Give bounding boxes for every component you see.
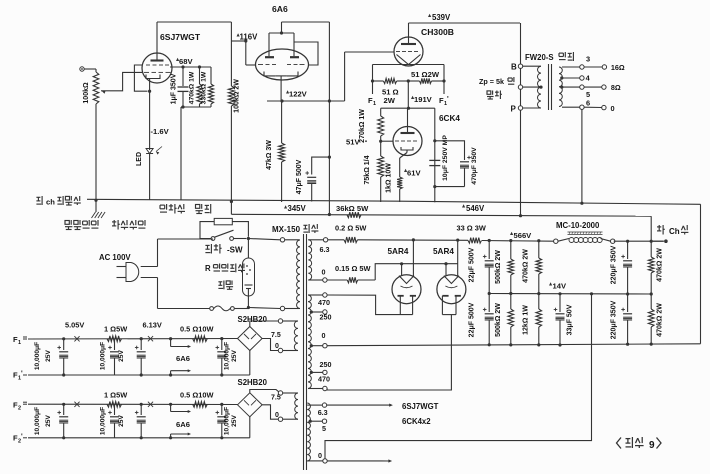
wire ground rail (one-point chassis bus) — [87, 199, 701, 204]
junction 10uF top — [433, 139, 436, 142]
label R input neon — [205, 264, 245, 274]
capacitor 10000uF 25V F1-b — [108, 339, 119, 375]
tube 6A6 V2 — [256, 33, 309, 80]
svg-text:75kΩ 1/4: 75kΩ 1/4 — [364, 155, 371, 184]
resistor 470k 1W — [197, 67, 202, 107]
label 500k 2W lower — [495, 303, 502, 337]
wire 51V to 6CK4 grid — [381, 140, 394, 142]
resistor 470k 2W right lower — [648, 294, 654, 346]
wire primary leads — [285, 240, 300, 309]
label AC 100V — [99, 253, 131, 262]
label 0.5ohm 10W F1 — [180, 325, 213, 334]
label 470uF 350V — [471, 147, 478, 185]
svg-text:6CK4: 6CK4 — [439, 114, 460, 123]
junction 470k top — [198, 65, 201, 68]
OPT core — [549, 64, 552, 110]
wire secondary return to ground rail — [581, 109, 583, 203]
svg-text:ch: ch — [46, 198, 55, 207]
inductor MX primary — [297, 240, 300, 309]
terminal 0 rect — [323, 278, 327, 282]
node +345V — [284, 204, 307, 213]
wire tap4 — [560, 74, 590, 83]
wire bridge1 bottom to F1' — [249, 351, 251, 376]
svg-text:16Ω: 16Ω — [611, 63, 625, 72]
spark killer R across switch — [200, 218, 248, 238]
wire HV tap 0 center — [310, 331, 327, 348]
junction 6A6 plate bar — [280, 31, 283, 34]
wire bridge2 right to 0 — [262, 405, 278, 419]
svg-text:6.13V: 6.13V — [143, 321, 162, 330]
junction 14V mid — [590, 292, 593, 295]
terminal P — [511, 105, 523, 114]
MX-150 core — [304, 234, 307, 470]
svg-text:6SJ7WGT: 6SJ7WGT — [160, 32, 201, 42]
label 6.3 top — [320, 245, 330, 254]
svg-text:470: 470 — [318, 298, 330, 307]
svg-text:500kΩ 2W: 500kΩ 2W — [495, 303, 502, 337]
label 470k 2W upper — [523, 249, 530, 283]
resistor 0.5ohm 10W F2 — [193, 402, 208, 408]
capacitor 470uF 350V — [435, 141, 471, 187]
svg-text:5AR4: 5AR4 — [433, 247, 454, 256]
svg-text:10,000μF: 10,000μF — [100, 407, 107, 435]
label 470k 1W — [189, 71, 196, 104]
svg-text:100kΩ: 100kΩ — [83, 82, 90, 104]
junction 100k lead on ground rail — [230, 200, 233, 203]
svg-text:8Ω: 8Ω — [611, 83, 621, 92]
svg-text:546V: 546V — [466, 204, 485, 213]
svg-text:LED: LED — [136, 152, 143, 166]
inductor heater winding A (7.5V) — [283, 321, 298, 351]
capacitor 22uF 500V upper — [483, 241, 494, 296]
resistor 270k 1W — [378, 108, 384, 141]
wire 6.3 heater feed — [327, 404, 393, 407]
label 220uF 350V lower — [611, 300, 618, 339]
terminal primary top — [280, 238, 284, 242]
label 10000uF F1-b — [100, 342, 126, 370]
xmark F1-a — [74, 336, 79, 341]
label 51ohm 2W left — [382, 88, 399, 106]
junction grid tap — [244, 39, 247, 42]
node 51V — [346, 138, 367, 147]
resistor 12k 1W — [536, 294, 542, 347]
node +116V — [237, 33, 259, 42]
wire rect rail — [328, 240, 664, 241]
label 10000uF F2-a — [34, 407, 52, 435]
svg-text:0: 0 — [322, 268, 326, 277]
resistor 1ohm 5W F2 — [107, 402, 122, 408]
resistor 33ohm 3W — [468, 238, 482, 244]
resistor 1ohm 5W F1 — [107, 336, 122, 342]
svg-text:0: 0 — [322, 331, 326, 340]
svg-text:25V: 25V — [45, 415, 52, 427]
capacitor 47uF 500V — [305, 156, 331, 202]
svg-text:61V: 61V — [407, 169, 421, 178]
svg-text:345V: 345V — [288, 204, 307, 213]
node +539V — [428, 13, 451, 22]
svg-text:-1.6V: -1.6V — [151, 127, 170, 136]
junction 5AR4-1 plate — [412, 238, 415, 241]
resistor 330k 1W — [208, 67, 213, 107]
junction cap top — [181, 65, 184, 68]
resistor 500k 2W upper — [508, 241, 514, 296]
label FW20-S Tango — [525, 52, 573, 62]
label 75k 1/4 — [364, 155, 371, 184]
resistor 0.2ohm 5W — [344, 237, 358, 243]
junction 10uF bottom — [433, 185, 436, 188]
ground symbol one-point chassis — [92, 212, 106, 218]
wire screen divider bottom — [181, 105, 211, 108]
wire heater feed to 5AR4s — [375, 262, 458, 280]
wire B+ rail +345V to +546V — [231, 214, 651, 216]
capacitor 10000uF 25V F2-c — [135, 403, 146, 440]
junction 500k-1 top — [509, 239, 512, 242]
svg-text:0: 0 — [611, 104, 615, 113]
svg-text:0.5 Ω10W: 0.5 Ω10W — [180, 391, 213, 400]
wire F2 top — [28, 403, 238, 405]
wire 6SJ7 screen line +68V — [170, 66, 211, 68]
label tube 6SJ7WGT — [160, 32, 201, 42]
inductor OPT primary — [538, 66, 541, 108]
wire mid rail — [489, 293, 651, 296]
svg-text:3: 3 — [586, 55, 590, 64]
wire filament sides down — [373, 65, 445, 82]
xmark F2-b — [148, 402, 153, 407]
svg-text:B: B — [511, 63, 517, 72]
wire tap6 to 0 — [584, 106, 602, 108]
svg-text:10,000μF: 10,000μF — [100, 342, 107, 370]
junction 5AR4-2 plate — [456, 239, 459, 242]
svg-text:566V: 566V — [514, 231, 533, 240]
tube 5AR4 V5 — [392, 275, 421, 304]
svg-text:6A6: 6A6 — [176, 420, 190, 429]
potentiometer 100k — [93, 69, 110, 108]
label 1ohm 5W F2 — [104, 391, 127, 400]
wire tap5 to 8ohm — [584, 86, 602, 88]
wire bridge1 right to 0 — [262, 339, 278, 351]
svg-text:330kΩ 1W: 330kΩ 1W — [201, 71, 208, 104]
svg-text:10μF 250V MP: 10μF 250V MP — [442, 135, 449, 181]
label 10uF 250V MP — [442, 135, 449, 181]
label S2HB20 bridge2 — [238, 378, 268, 387]
wire pot wiper to 6SJ7 grid — [110, 72, 143, 90]
svg-text:220μF 350V: 220μF 350V — [611, 245, 618, 284]
svg-text:2: 2 — [18, 406, 21, 412]
label spark killer — [160, 204, 211, 214]
svg-text:22μF 500V: 22μF 500V — [469, 247, 476, 282]
wire pot bottom to ground rail — [94, 108, 97, 212]
label 270k 1W — [359, 109, 366, 143]
terminal 0 ohm — [602, 104, 615, 113]
wire 6.3 heater tap — [307, 403, 328, 417]
wire 6SJ7 plate top line — [157, 22, 231, 53]
inductor OPT secondary — [559, 67, 562, 106]
wire HV top to 5AR4-1 plates — [327, 295, 413, 315]
wire F1 bottom — [28, 374, 250, 376]
wire bridge1 top to 7.5 — [250, 321, 278, 327]
terminal 6.3 rect — [323, 238, 327, 242]
svg-text:5: 5 — [322, 424, 326, 433]
wire 5V tap — [309, 419, 327, 433]
junction cathode node — [148, 90, 151, 93]
svg-text:470kΩ 2W: 470kΩ 2W — [523, 249, 530, 283]
wire bottom rail B- — [327, 344, 700, 346]
wire tap6 — [562, 99, 590, 110]
terminal F1 — [368, 81, 376, 107]
wire 5AR4-2 cathode up — [457, 240, 459, 276]
junction 51V node — [379, 140, 382, 143]
label LED — [136, 152, 143, 166]
terminal 7.5 B — [271, 391, 283, 402]
svg-text:1: 1 — [373, 101, 376, 107]
wire 6A6 plate feed — [282, 22, 330, 33]
inductor heater winding B (7.5V) — [283, 393, 298, 419]
choke MC-10-2000 — [554, 232, 615, 243]
svg-text:Ch: Ch — [669, 227, 680, 236]
wire tap5 — [560, 85, 590, 99]
node +546V — [462, 204, 485, 213]
svg-text:12kΩ 1W: 12kΩ 1W — [523, 305, 530, 335]
wire bridge2 top to 7.5 — [250, 390, 279, 393]
wire filament center tap — [407, 79, 410, 108]
node +566V — [510, 231, 532, 240]
wire 0 heater feed — [327, 459, 392, 462]
switch power SW — [211, 230, 233, 240]
xmark F2-a — [74, 402, 79, 407]
label 6A6 heater F1 — [176, 354, 190, 363]
terminal 8 ohm — [602, 83, 621, 92]
label sayong — [487, 91, 502, 100]
svg-text:470kΩ 1W: 470kΩ 1W — [189, 71, 196, 104]
node 6.13V — [143, 321, 162, 330]
capacitor 10uF 250V MP — [429, 160, 440, 165]
wire 6A6 heater arrows F2 — [171, 404, 191, 438]
svg-text:10,000μF: 10,000μF — [34, 407, 41, 435]
resistor 470k 2W upper — [536, 241, 542, 296]
label 10000uF F2-b — [100, 407, 126, 435]
resistor 36k 5W in B+ rail — [347, 212, 361, 218]
wire heater 0 to 14V node — [325, 294, 592, 459]
label heater loads 6CK4x2 — [402, 417, 431, 426]
wire bridge2 bottom to F2' — [249, 417, 251, 438]
bridge rectifier S2HB20 #2 — [238, 393, 263, 417]
label 100k 2W — [234, 79, 241, 113]
svg-text:470: 470 — [318, 375, 330, 384]
resistor 47k 3W cathode — [279, 101, 285, 202]
label 220uF 350V upper — [611, 245, 618, 284]
svg-text:R: R — [205, 264, 211, 273]
resistor 470k 2W right upper — [648, 241, 654, 295]
label one-point chassis earth — [65, 220, 145, 230]
svg-text:191V: 191V — [414, 95, 433, 104]
caption schematic 9 — [617, 437, 662, 451]
wire 191V bar — [381, 107, 435, 110]
node -61V — [404, 169, 421, 178]
label 1ohm 5W F1 — [104, 325, 127, 334]
svg-text:P: P — [511, 105, 517, 114]
terminal F2' input — [13, 434, 27, 445]
xmark F1-b — [148, 336, 153, 341]
label 10000uF 25V F1-a — [34, 342, 52, 370]
svg-text:470μF 350V: 470μF 350V — [471, 147, 478, 185]
capacitor 22uF 500V lower — [483, 294, 494, 347]
wire 6A6 cathode down — [280, 76, 282, 101]
svg-text:6.3: 6.3 — [320, 245, 330, 254]
svg-text:1μF 350V: 1μF 350V — [171, 73, 178, 104]
label 10000uF F2-d — [224, 407, 239, 435]
wire right box edge (to other channel frame) — [700, 204, 702, 343]
tube 6CK4 V4 — [393, 127, 422, 156]
svg-text:25V: 25V — [118, 350, 125, 362]
svg-text:25V: 25V — [45, 350, 52, 362]
svg-text:500kΩ 2W: 500kΩ 2W — [495, 250, 502, 284]
wire AC loop left — [157, 239, 159, 309]
capacitor 1uF 350V — [178, 67, 189, 107]
wire suppressor wrap — [134, 65, 147, 91]
svg-text:22μF 500V: 22μF 500V — [469, 302, 476, 337]
tube 6SJ7 V1 — [142, 53, 172, 83]
terminal 0 A — [275, 343, 283, 353]
label 47k 3W — [266, 140, 273, 170]
label fuse-kr — [218, 281, 233, 290]
wire B+ rail corner down to choke rail — [650, 216, 652, 241]
label 500k 2W upper — [495, 250, 502, 284]
svg-text:10,000μF: 10,000μF — [224, 342, 231, 370]
svg-text:270kΩ 1W: 270kΩ 1W — [359, 109, 366, 143]
wire +122V line — [267, 99, 345, 102]
wire HV tap top 470 — [308, 293, 330, 307]
capacitor 10000uF 25V F1-d — [216, 337, 227, 377]
svg-text:539V: 539V — [432, 13, 451, 22]
svg-text:51V: 51V — [346, 138, 360, 147]
svg-text:1 Ω5W: 1 Ω5W — [104, 391, 127, 400]
capacitor 10000uF 25V F2-a — [57, 403, 68, 440]
wire tap4 stub — [583, 77, 585, 79]
wire 191V right drop — [434, 108, 436, 202]
resistor 0.15ohm 5W — [327, 277, 375, 283]
junction 470k-right top — [650, 240, 653, 243]
node 5.05V — [65, 321, 84, 330]
junction secondary-ground — [580, 202, 583, 205]
label 33ohm 3W — [457, 224, 486, 233]
wire B to primary — [523, 65, 541, 67]
resistor 75k quarterW — [378, 141, 384, 202]
resistor 51ohm 2W left — [371, 78, 408, 83]
wire P to primary — [523, 107, 541, 109]
wire CH300B filament bar — [373, 64, 445, 66]
svg-text:S2HB20: S2HB20 — [238, 378, 268, 387]
svg-text:250: 250 — [320, 360, 332, 369]
wire OPT primary drop — [520, 23, 522, 216]
junction switch-right node — [247, 237, 250, 240]
wire HV tap bottom 470 — [308, 375, 330, 391]
svg-text:0: 0 — [275, 412, 279, 419]
svg-text:AC 100V: AC 100V — [99, 253, 131, 262]
label from other channel — [36, 196, 80, 207]
inductor 6.3V winding rect-heater — [308, 240, 323, 280]
node +122V — [286, 90, 308, 99]
svg-text:47kΩ 3W: 47kΩ 3W — [266, 140, 273, 170]
svg-text:0: 0 — [275, 343, 279, 350]
inductor 6.3/5/0 winding — [307, 403, 310, 461]
label 0.2ohm 5W — [335, 224, 366, 233]
label 470k 2W right upper — [657, 248, 664, 282]
svg-text:10,000μF: 10,000μF — [224, 407, 231, 435]
terminal F1prime — [439, 81, 449, 107]
resistor 100k 2W plate load — [228, 85, 234, 214]
label tube 6A6 — [272, 4, 288, 14]
svg-text:122V: 122V — [289, 90, 308, 99]
svg-text:S2HB20: S2HB20 — [238, 315, 268, 324]
label MX-150 Tango — [272, 224, 318, 234]
svg-text:FW20-S: FW20-S — [525, 53, 554, 62]
svg-text:6CK4x2: 6CK4x2 — [402, 417, 431, 426]
resistor 0.5ohm 10W F1 — [193, 336, 208, 342]
wire HV tap 250 upper — [310, 310, 332, 322]
wire F1 top — [28, 338, 238, 341]
wire tap3 — [562, 55, 590, 70]
resistor 1k 10W — [397, 176, 402, 202]
svg-text:0.15 Ω 5W: 0.15 Ω 5W — [335, 264, 371, 273]
junction 220uF-1 top — [626, 240, 629, 243]
svg-text:6A6: 6A6 — [272, 4, 288, 14]
wire 6CK4 plate from 191V — [407, 108, 409, 127]
junction 22uF-1 top — [488, 239, 491, 242]
label 470k 2W right lower — [657, 303, 664, 337]
terminal F2 input — [13, 401, 27, 412]
label 47uF 500V — [296, 159, 303, 194]
wire input to pot — [84, 68, 96, 70]
svg-text:470kΩ 2W: 470kΩ 2W — [657, 303, 664, 337]
wire CH300B plate to OPT — [409, 23, 521, 44]
wire tap3 to 16ohm — [584, 66, 602, 68]
svg-text:33μF 50V: 33μF 50V — [567, 304, 574, 335]
label 36k 5W — [336, 204, 369, 213]
svg-text:68V: 68V — [179, 57, 193, 66]
svg-text:6.3: 6.3 — [318, 408, 328, 417]
terminal primary mid tap — [518, 85, 542, 89]
label tube CH300B — [421, 27, 454, 37]
terminal primary bottom — [280, 306, 284, 310]
wire 6A6 heater arrows F1 — [171, 339, 191, 375]
label 33uF 50V — [567, 304, 574, 335]
terminal 0 B — [275, 412, 283, 421]
fuse in AC line — [158, 306, 281, 311]
label 51ohm 2W right — [411, 70, 440, 79]
label 22uF 500V upper — [469, 247, 476, 282]
svg-text:2W: 2W — [384, 96, 396, 105]
wire switch to primary — [234, 239, 281, 240]
wire 6CK4 cathode down — [400, 153, 407, 177]
capacitor 33uF 50V — [554, 292, 565, 346]
wire plate line down to 116V node — [230, 22, 232, 85]
terminal F1 input — [13, 335, 27, 346]
wire F2 bottom — [28, 437, 250, 439]
svg-text:10,000μF: 10,000μF — [34, 342, 41, 370]
label power-SW — [205, 244, 243, 255]
label MC-10-2000 — [556, 221, 600, 230]
svg-text:7.5: 7.5 — [271, 395, 281, 402]
node +191V — [411, 95, 433, 104]
svg-text:0.5 Ω10W: 0.5 Ω10W — [180, 325, 213, 334]
terminal B — [511, 63, 523, 72]
svg-text:33 Ω 3W: 33 Ω 3W — [457, 224, 486, 233]
label 12k 1W — [523, 305, 530, 335]
svg-text:Zp = 5k: Zp = 5k — [479, 77, 504, 86]
wire AC top to switch — [158, 238, 214, 240]
label tube 6CK4 — [439, 114, 460, 123]
svg-text:6: 6 — [586, 99, 590, 108]
